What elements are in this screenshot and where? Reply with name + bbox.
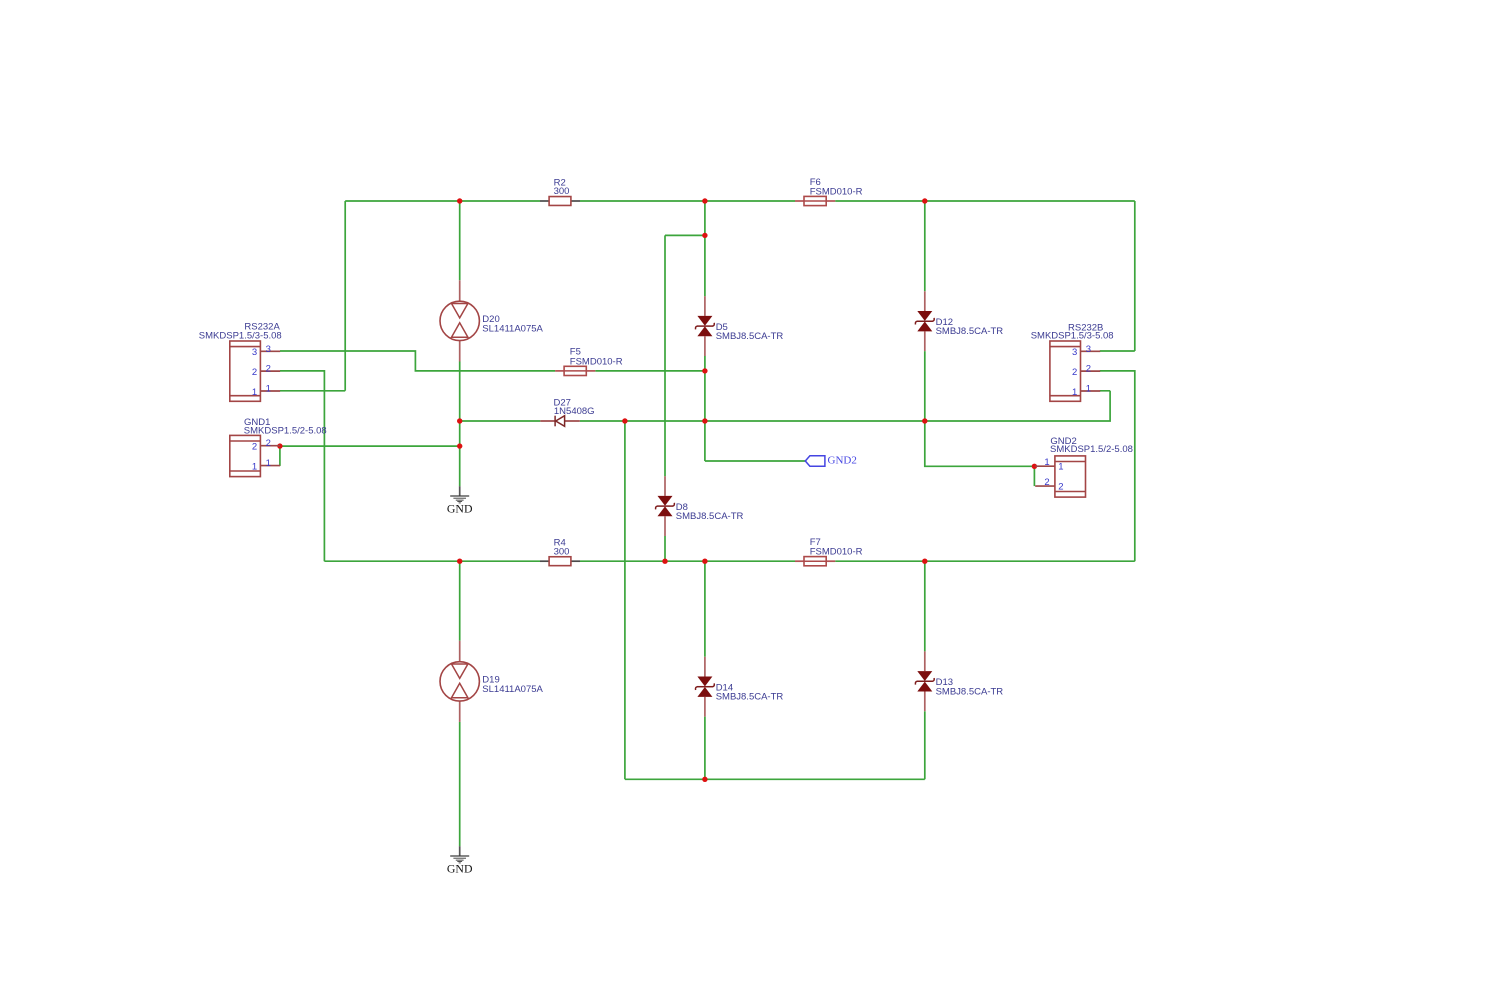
svg-text:1: 1 xyxy=(252,387,257,398)
svg-text:SMKDSP1.5/2-5.08: SMKDSP1.5/2-5.08 xyxy=(244,425,327,436)
svg-text:FSMD010-R: FSMD010-R xyxy=(810,547,863,558)
svg-text:300: 300 xyxy=(554,546,570,557)
svg-text:GND: GND xyxy=(447,501,473,515)
svg-text:SMBJ8.5CA-TR: SMBJ8.5CA-TR xyxy=(676,511,744,522)
svg-text:SMBJ8.5CA-TR: SMBJ8.5CA-TR xyxy=(936,686,1004,697)
svg-text:SMBJ8.5CA-TR: SMBJ8.5CA-TR xyxy=(936,326,1004,337)
svg-text:3: 3 xyxy=(1086,344,1091,355)
svg-text:2: 2 xyxy=(1072,367,1077,378)
svg-text:2: 2 xyxy=(266,364,271,375)
svg-text:3: 3 xyxy=(1072,347,1077,358)
svg-text:1: 1 xyxy=(1072,387,1077,398)
svg-text:3: 3 xyxy=(266,344,271,355)
svg-text:2: 2 xyxy=(252,442,257,453)
svg-text:SMKDSP1.5/2-5.08: SMKDSP1.5/2-5.08 xyxy=(1050,444,1133,455)
svg-text:FSMD010-R: FSMD010-R xyxy=(810,186,863,197)
svg-text:2: 2 xyxy=(266,438,271,449)
svg-text:1: 1 xyxy=(266,458,271,469)
svg-text:GND: GND xyxy=(447,861,473,875)
svg-text:1: 1 xyxy=(1044,457,1049,468)
svg-text:SMKDSP1.5/3-5.08: SMKDSP1.5/3-5.08 xyxy=(199,330,282,341)
svg-text:1: 1 xyxy=(266,384,271,395)
svg-text:1: 1 xyxy=(252,461,257,472)
svg-text:FSMD010-R: FSMD010-R xyxy=(570,356,623,367)
svg-text:300: 300 xyxy=(554,186,570,197)
svg-text:2: 2 xyxy=(1086,364,1091,375)
svg-text:SL1411A075A: SL1411A075A xyxy=(482,684,543,695)
svg-text:1N5408G: 1N5408G xyxy=(554,406,595,417)
svg-text:SMBJ8.5CA-TR: SMBJ8.5CA-TR xyxy=(716,692,784,703)
svg-text:SMBJ8.5CA-TR: SMBJ8.5CA-TR xyxy=(716,331,784,342)
svg-text:GND2: GND2 xyxy=(828,455,857,467)
svg-text:1: 1 xyxy=(1086,384,1091,395)
svg-text:3: 3 xyxy=(252,347,257,358)
svg-text:2: 2 xyxy=(1044,477,1049,488)
svg-text:SL1411A075A: SL1411A075A xyxy=(482,323,543,334)
svg-text:SMKDSP1.5/3-5.08: SMKDSP1.5/3-5.08 xyxy=(1031,330,1114,341)
svg-text:2: 2 xyxy=(1058,482,1063,493)
svg-text:2: 2 xyxy=(252,367,257,378)
svg-text:1: 1 xyxy=(1058,462,1063,473)
